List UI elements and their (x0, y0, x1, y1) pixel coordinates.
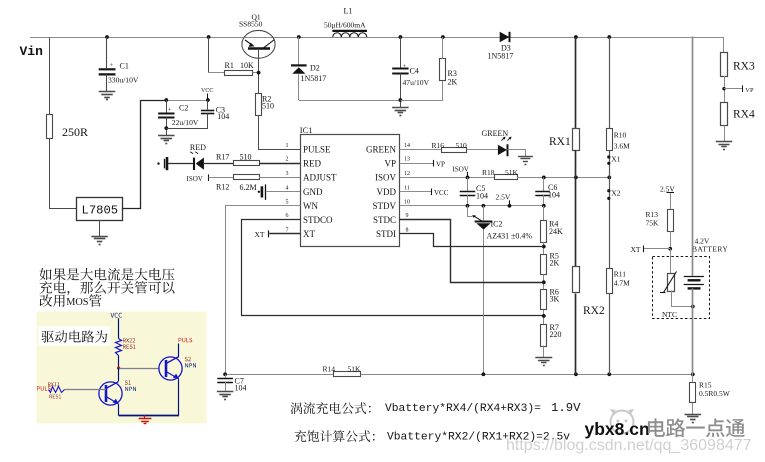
svg-text:510: 510 (456, 141, 468, 150)
capacitor C5 (460, 177, 486, 205)
inductor L1 (332, 31, 367, 37)
net VCC tick (201, 88, 213, 100)
resistor R1 (225, 71, 253, 76)
svg-text:R18: R18 (482, 168, 495, 177)
wire ISOV to R12 (209, 177, 234, 179)
junction C4 top (399, 35, 403, 39)
svg-text:R17: R17 (216, 152, 229, 161)
wire R1 branch down (208, 37, 210, 73)
resistor R6 (541, 290, 547, 310)
shunt reference IC2 AZ431 (468, 206, 493, 230)
svg-text:SS8550: SS8550 (239, 20, 263, 29)
net VP tick pin13 (400, 160, 445, 168)
junction C6 top (542, 176, 546, 180)
capacitor C6 (535, 177, 557, 205)
svg-text:VDD: VDD (377, 187, 397, 197)
net XT label left (255, 230, 269, 239)
svg-text:104: 104 (217, 112, 229, 121)
label S1 NPN (125, 380, 136, 391)
svg-text:47u/10V: 47u/10V (403, 78, 430, 87)
wire L7805 out up to VCC node (123, 101, 167, 209)
label RX22 RES1 (123, 338, 135, 349)
wire 250R to L7805 (50, 139, 77, 209)
svg-text:STDV: STDV (372, 201, 396, 211)
svg-text:R12: R12 (216, 182, 229, 191)
junction C7 tap (223, 372, 227, 376)
wire RX1 to RX2 (575, 150, 577, 267)
svg-text:220: 220 (550, 330, 562, 339)
label R16 510 (432, 141, 468, 150)
wire GREEN led to ground (508, 150, 526, 157)
svg-text:13: 13 (404, 157, 410, 163)
capacitor C3 (167, 100, 226, 129)
net VCC inset (111, 313, 123, 339)
junction C2 top (164, 98, 168, 102)
watermark logo circle (610, 409, 634, 434)
diode D3 1N5817 (500, 32, 510, 42)
wire RED led to R17 (204, 163, 233, 165)
op-amp U1 IC1 box (301, 135, 400, 247)
svg-text:24K: 24K (549, 227, 563, 236)
transistor Q1 SS8550 (242, 30, 275, 93)
value AZ431 0.4% (487, 232, 533, 241)
capacitor C2 (158, 100, 188, 135)
wire bottom rail left (225, 374, 334, 376)
resistor R17 (234, 161, 260, 166)
svg-text:6.2M: 6.2M (240, 183, 257, 192)
net 2.5V tick (496, 193, 511, 206)
inset label box (39, 327, 111, 346)
svg-text:RED: RED (190, 143, 206, 152)
wire R10 column top (609, 37, 611, 128)
resistor R5 (541, 255, 547, 275)
svg-text:Vbattery*RX4/(RX4+RX3)=: Vbattery*RX4/(RX4+RX3)= (385, 403, 541, 415)
wire L7805 ground stub (99, 220, 101, 236)
junction 2.5V tick (508, 204, 512, 208)
diode D2 1N5817 (291, 37, 307, 100)
junction battery minus (691, 305, 695, 309)
label R12 6.2M (216, 182, 257, 192)
svg-text:D2: D2 (310, 64, 320, 73)
wire R4 R5 junction (542, 242, 546, 254)
watermark 电路一点通 (648, 418, 745, 437)
svg-text:104: 104 (548, 190, 560, 199)
junction C2 bottom (164, 126, 168, 130)
svg-text:MOS: MOS (66, 297, 89, 308)
wire S2 emitter down (178, 379, 180, 415)
wire STDCO pin6 to R6/R7 node (242, 220, 544, 316)
wire R16 to GREEN led (467, 149, 498, 151)
net VP tick at divider (722, 85, 754, 93)
wire R7 to ground (543, 346, 545, 358)
svg-text:GREEN: GREEN (482, 129, 509, 138)
resistor RX1 (573, 129, 580, 151)
ground GREEN led (518, 156, 533, 158)
LED RED (194, 158, 204, 171)
svg-text:10: 10 (404, 199, 410, 205)
svg-text:GREEN: GREEN (366, 145, 396, 155)
svg-text:50μH/600mA: 50μH/600mA (324, 20, 366, 29)
pin numbers left 1-7 (286, 143, 289, 233)
svg-text:2: 2 (286, 157, 289, 163)
resistor RX22 (116, 339, 122, 356)
label R11 4.7M (614, 269, 630, 287)
resistor RX3 (721, 53, 728, 77)
wire R12 to ADJUST pin3 (259, 177, 300, 179)
label R14 51K (323, 364, 362, 373)
svg-text:WN: WN (303, 201, 318, 211)
wire RX2 to rail (575, 294, 577, 375)
svg-text:X2: X2 (611, 189, 620, 198)
resistor R16 (442, 148, 467, 153)
node X2 (607, 189, 621, 200)
svg-text:STDC: STDC (373, 215, 396, 225)
net 2.5V at R13 (660, 185, 675, 194)
wire Vin top rail (30, 37, 724, 39)
wire to R1 (209, 72, 224, 74)
wire WN pin5 down (226, 206, 301, 375)
ground C2 (158, 135, 175, 137)
wire X1 to X2 (609, 177, 611, 268)
junction RX2 at rail (574, 372, 578, 376)
svg-text:R11: R11 (614, 269, 626, 278)
ground L7805 (91, 236, 108, 238)
wire STDI pin8 trace (400, 234, 544, 247)
resistor R15 (690, 374, 696, 402)
wire ISOV pin12 row (400, 177, 494, 179)
svg-text:11: 11 (404, 185, 410, 191)
wire R1 to base node (253, 72, 259, 74)
transistor S2 NPN (159, 357, 182, 381)
note line3 (40, 294, 102, 308)
regulator U2 L7805 (77, 198, 123, 221)
net XT label right (631, 245, 671, 254)
net ISOV left label (187, 174, 209, 182)
svg-text:AZ431: AZ431 (487, 232, 510, 241)
svg-text:4.7M: 4.7M (614, 278, 630, 287)
ground R15 (685, 414, 702, 416)
wire cap to RED led (168, 163, 193, 165)
junction R1 branch (207, 35, 211, 39)
wire S1 emitter down (118, 404, 120, 415)
junction IC2 anode at rail (482, 372, 486, 376)
svg-text:22u/10V: 22u/10V (172, 118, 199, 127)
ground C4 (392, 107, 409, 109)
svg-text:BATTERY: BATTERY (692, 244, 728, 253)
junction inset node (117, 366, 120, 369)
svg-text:3K: 3K (550, 294, 560, 303)
wire inset bottom rail (119, 415, 179, 417)
resistor R7 (541, 325, 547, 347)
svg-text:X1: X1 (611, 155, 620, 164)
LED GREEN arrows (502, 137, 512, 141)
formula2 label (295, 430, 375, 442)
wire battery minus to rail (692, 288, 694, 374)
label R4 24K (549, 219, 563, 236)
junction C3 top (206, 98, 210, 102)
svg-text:104: 104 (476, 191, 488, 200)
svg-text:2K: 2K (550, 258, 560, 267)
label R5 2K (550, 251, 560, 267)
resistor R11 (607, 269, 613, 294)
wire GREEN pin14 to R16 (400, 149, 442, 151)
wire R10 to X1 (609, 150, 611, 177)
wire node to S1 collector (118, 368, 120, 381)
thermistor NTC (660, 272, 677, 293)
wire Vin branch down to 250R (49, 38, 51, 115)
wire node to S2 base (119, 368, 159, 370)
net PULS right (179, 338, 193, 357)
svg-text:51K: 51K (505, 168, 519, 177)
ground RX4 (716, 141, 733, 143)
resistor R10 (607, 129, 613, 151)
svg-text:75K: 75K (646, 219, 660, 228)
wire RX22 to node (118, 356, 120, 369)
label R17 510 (216, 152, 252, 161)
ground inset red (139, 416, 152, 424)
junction IC2 cathode (482, 204, 486, 208)
svg-text:RX2: RX2 (583, 305, 605, 317)
svg-text:51K: 51K (348, 364, 362, 373)
svg-text:ADJUST: ADJUST (303, 173, 337, 183)
svg-text:RX4: RX4 (733, 109, 755, 121)
junction Q1 collector rail (297, 35, 301, 39)
label R18 51K (482, 168, 519, 177)
svg-text:PULSE: PULSE (303, 145, 331, 155)
wire R15 to ground (692, 403, 694, 414)
battery box dashed (653, 257, 710, 319)
junction C1 top (105, 35, 109, 39)
svg-text:R10: R10 (614, 131, 627, 140)
svg-text:2.5V: 2.5V (496, 193, 511, 202)
svg-text:3: 3 (286, 171, 289, 177)
svg-text:8: 8 (406, 227, 409, 233)
label S2 NPN (185, 357, 196, 368)
svg-text:4: 4 (286, 185, 289, 191)
label R7 220 (550, 323, 562, 339)
label 驱动电路为 (42, 330, 108, 342)
svg-text:XT: XT (303, 229, 315, 239)
label R1 10K (225, 61, 255, 70)
svg-text:RX1: RX1 (549, 136, 571, 148)
label R10 3.6M (614, 131, 630, 151)
svg-text:VP: VP (436, 160, 445, 168)
svg-text:ISOV: ISOV (453, 165, 469, 173)
wire NTC bottom (672, 291, 693, 307)
resistor R14 (334, 372, 361, 377)
svg-text:IC1: IC1 (300, 125, 313, 135)
wire rail corner to RX3 (723, 38, 725, 53)
junction R11 at rail (607, 372, 611, 376)
note line2 (40, 281, 175, 295)
junction XT node (668, 247, 672, 251)
junction R15 at rail (691, 372, 695, 376)
battery BT1 (684, 277, 704, 289)
svg-text:STDI: STDI (376, 229, 396, 239)
wire 2.5V to R13 (670, 193, 672, 210)
junction C5 top (466, 176, 470, 180)
ground C1 (99, 91, 116, 93)
svg-text:NTC: NTC (662, 310, 677, 319)
wire STDC pin9 trace (400, 220, 544, 283)
svg-text:IC2: IC2 (491, 220, 503, 229)
svg-text:510: 510 (262, 102, 274, 111)
svg-text:0.5R0.5W: 0.5R0.5W (699, 389, 731, 398)
pin numbers right 14-8 (404, 143, 410, 233)
wire IC2 anode down (483, 230, 485, 375)
wire R17 to RED pin2 (259, 163, 300, 165)
pin names right (366, 145, 396, 239)
wire cap to GND pin4 (266, 191, 300, 193)
svg-text:Vin: Vin (20, 44, 44, 59)
junction C6 bottom R4 top (542, 204, 546, 208)
inset panel (37, 312, 207, 424)
resistor RX2 (573, 267, 580, 293)
capacitor stub at RED cathode (157, 157, 167, 170)
svg-text:+: + (168, 106, 172, 113)
resistor R3 (440, 37, 446, 81)
svg-text:250R: 250R (62, 125, 88, 139)
node X1 (607, 155, 621, 165)
resistor R18 (495, 175, 518, 180)
junction R10 top (607, 35, 611, 39)
LED GREEN (498, 144, 508, 156)
net ISOV right label (453, 165, 469, 177)
svg-text:104: 104 (235, 384, 247, 393)
svg-text:±0.4%: ±0.4% (511, 232, 532, 241)
svg-text:10K: 10K (240, 61, 254, 70)
note line1 (39, 268, 174, 281)
formula1 label (291, 402, 371, 414)
wire R5 R6 junction (542, 275, 546, 290)
svg-text:STDCO: STDCO (303, 215, 333, 225)
svg-text:https://blog.csdn.net/qq_36098: https://blog.csdn.net/qq_36098477 (506, 437, 752, 454)
svg-text:R16: R16 (432, 141, 445, 150)
svg-text:1: 1 (286, 143, 289, 149)
wire R3 bottom to ground bus (401, 81, 443, 101)
resistor RX4 (721, 103, 728, 126)
svg-text:12: 12 (404, 171, 410, 177)
wire R11 to rail (609, 294, 611, 375)
pin names left (303, 145, 337, 239)
wire RX4 to ground (724, 126, 726, 142)
LED RED arrows (190, 152, 198, 154)
svg-text:L1: L1 (344, 7, 353, 16)
capacitor C7 (217, 374, 244, 391)
svg-text:GND: GND (303, 187, 323, 197)
svg-text:XT: XT (631, 245, 641, 254)
resistor RX11 (49, 387, 65, 393)
svg-text:ybx8.cn: ybx8.cn (585, 419, 650, 439)
svg-text:VP: VP (384, 158, 396, 168)
svg-text:ISOV: ISOV (187, 175, 203, 183)
wire XT to pin7 (269, 233, 300, 235)
junction R6 R7 (542, 310, 546, 324)
label R6 3K (550, 287, 560, 303)
junction ISOV at RX1 (574, 176, 578, 180)
svg-text:1N5817: 1N5817 (488, 52, 514, 61)
svg-text:1.9V: 1.9V (551, 401, 581, 415)
resistor R13 (668, 210, 674, 232)
label RX11 RES1 (48, 382, 61, 398)
wire R18 to C6 RX1 R10 (517, 177, 609, 179)
wire battery column top joins rail (692, 37, 694, 39)
capacitor C4 (392, 37, 419, 107)
wire RX3 to RX4 (724, 76, 726, 103)
junction R3 top (441, 35, 445, 39)
svg-text:6: 6 (286, 213, 289, 219)
junction RX1 top (574, 35, 578, 39)
svg-text:330u/10V: 330u/10V (108, 76, 139, 85)
resistor 250R (47, 115, 89, 140)
wire RX1 column top (575, 37, 577, 128)
wire RX11 to S1 base (65, 389, 107, 391)
svg-text:1N5817: 1N5817 (301, 74, 327, 83)
svg-text:C1: C1 (120, 62, 129, 71)
junction ISOV at R10 column (607, 176, 611, 180)
svg-text:VCC: VCC (434, 189, 449, 197)
wire D2 anode to ground bus (299, 100, 401, 102)
label R13 75K (646, 210, 660, 228)
transistor S1 NPN (99, 382, 122, 406)
net PULS left (37, 386, 51, 390)
wire VCC node segment (166, 100, 208, 102)
wire XT node into battery box (670, 249, 672, 274)
wire bottom rail right (361, 374, 693, 376)
net VCC tick pin11 (400, 189, 449, 198)
wire R4 top stub (543, 206, 545, 220)
wire STDV pin10 row (400, 205, 544, 207)
svg-text:RED: RED (303, 158, 322, 168)
svg-text:R14: R14 (323, 364, 336, 373)
junction Q1 base node (257, 71, 261, 75)
svg-text:5: 5 (286, 199, 289, 205)
resistor R12 (234, 175, 260, 180)
ground R7 (535, 357, 552, 359)
label R15 0.5R0.5W (699, 381, 731, 399)
svg-text:XT: XT (255, 230, 265, 239)
svg-text:9: 9 (406, 213, 409, 219)
svg-text:VP: VP (745, 87, 754, 94)
junction D2/C4/R3 ground bus (399, 98, 403, 102)
svg-text:VCC: VCC (201, 88, 213, 94)
svg-text:+: + (110, 62, 114, 69)
wire R13 to XT node (670, 231, 672, 249)
svg-text:RX3: RX3 (733, 61, 755, 73)
svg-text:C4: C4 (410, 67, 419, 76)
svg-text:R1: R1 (225, 61, 234, 70)
svg-text:2K: 2K (448, 78, 458, 87)
ground C7 (217, 391, 234, 393)
svg-text:+: + (403, 63, 407, 70)
svg-text:L7805: L7805 (82, 203, 119, 217)
capacitor stub at GND pin4 (258, 184, 266, 200)
svg-text:7: 7 (286, 227, 289, 233)
capacitor C1 (99, 37, 129, 92)
resistor R4 (541, 221, 547, 243)
junction C5 bottom (466, 204, 470, 208)
svg-text:ISOV: ISOV (375, 173, 397, 183)
svg-text:3.6M: 3.6M (614, 142, 630, 151)
resistor R2 (256, 94, 262, 116)
svg-text:510: 510 (240, 152, 252, 161)
svg-text:14: 14 (404, 143, 410, 149)
svg-text:C2: C2 (179, 103, 188, 112)
wire R2 to PULSE pin1 (259, 116, 301, 150)
wire battery column (692, 37, 694, 276)
